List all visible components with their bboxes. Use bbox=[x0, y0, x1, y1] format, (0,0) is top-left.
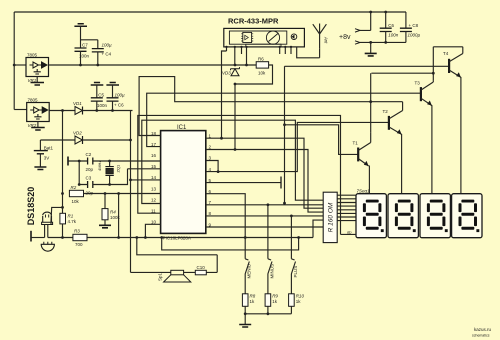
node loop tap1 bbox=[117, 236, 120, 239]
connector arrow top bbox=[355, 29, 360, 32]
switch MENIU bbox=[245, 259, 252, 294]
wire C2 C3 link bbox=[78, 161, 80, 185]
node crystal bottom junction bbox=[108, 183, 111, 186]
capacitor C6b 100n bbox=[380, 12, 399, 42]
wire battery to VD2 line bbox=[40, 139, 75, 141]
wire VD2 cathode to Vdd riser bbox=[83, 139, 131, 141]
node rail junction 1 bbox=[369, 11, 372, 14]
resistor R9 1k bbox=[265, 294, 278, 307]
node rail-B battery tap bbox=[61, 109, 64, 112]
wire T4 emitter to display4 bbox=[460, 77, 462, 194]
ground near +8v bbox=[365, 53, 377, 56]
battery Bat1 3V bbox=[34, 140, 54, 167]
svg-text:3V: 3V bbox=[44, 156, 50, 161]
wire ground drop bbox=[370, 42, 372, 53]
wire crystal top row bbox=[69, 160, 161, 162]
capacitor C10 bbox=[195, 265, 206, 275]
node pin3 pin4 junction bbox=[217, 170, 220, 173]
node crystal top junction bbox=[108, 160, 111, 163]
capacitor C6 100u bbox=[107, 85, 126, 111]
node Vdd riser junction bbox=[129, 139, 132, 142]
svg-text:10k: 10k bbox=[72, 199, 80, 204]
ground buttons bbox=[239, 325, 251, 328]
wire PLUS column bbox=[290, 216, 292, 259]
wire +5V rail A from VR1 output bbox=[49, 64, 257, 66]
node C7 junction bbox=[79, 64, 82, 67]
regulator VR1 7805 bbox=[26, 53, 49, 84]
wire pin8 to Rnet bbox=[206, 215, 323, 217]
svg-text:R4: R4 bbox=[110, 210, 116, 215]
segments digit1 bbox=[363, 200, 384, 232]
capacitor C3 20p bbox=[86, 176, 94, 196]
wire button ground bus bbox=[245, 306, 291, 324]
sensor bottom view bbox=[41, 242, 54, 251]
svg-text:12: 12 bbox=[151, 197, 157, 202]
wire loop lower branch bbox=[162, 238, 299, 250]
svg-text:Bat1: Bat1 bbox=[44, 146, 54, 151]
wire T1 emitter to display1 bbox=[368, 166, 370, 194]
wire RCR pin to IC pin1 bbox=[222, 51, 227, 138]
svg-text:MENIU: MENIU bbox=[247, 264, 252, 279]
ground below VR1 bbox=[36, 77, 38, 83]
svg-text:20p: 20p bbox=[86, 167, 94, 172]
node R4 top tap bbox=[104, 192, 107, 195]
resistor network R 160 OM bbox=[323, 192, 337, 242]
svg-text:schematics: schematics bbox=[472, 334, 490, 338]
capacitor C8 1000u bbox=[400, 12, 421, 42]
wire collector bus T3 T4 bbox=[371, 72, 433, 74]
connector arrow bottom bbox=[355, 41, 360, 44]
svg-text:ZQ1: ZQ1 bbox=[116, 164, 121, 173]
svg-text:4MHz: 4MHz bbox=[97, 161, 102, 171]
wire antenna feed bbox=[297, 47, 320, 58]
svg-text:C10: C10 bbox=[197, 265, 206, 270]
node R1 bottom junction bbox=[61, 236, 64, 239]
svg-text:C6: C6 bbox=[388, 23, 394, 28]
node MENIU bus junction bbox=[244, 236, 247, 239]
svg-text:R8: R8 bbox=[250, 294, 256, 299]
transistor T1 bbox=[353, 132, 371, 166]
svg-text:C3: C3 bbox=[86, 176, 92, 181]
wire R4 bottom bbox=[104, 220, 106, 225]
wire VR2 input bbox=[14, 109, 27, 111]
node VR1 input junction bbox=[13, 64, 16, 67]
svg-text:1k: 1k bbox=[296, 299, 302, 304]
wire R2 to pin13 bbox=[84, 193, 161, 195]
display digit2 bbox=[388, 194, 418, 238]
resistor R10 1k bbox=[289, 294, 305, 307]
wire pin17 net to T3 base bbox=[147, 93, 421, 146]
node T1 staircase tap bbox=[283, 123, 286, 126]
wire R1 bottom bbox=[62, 224, 64, 238]
wire pin18 net to collector bus bbox=[139, 77, 403, 136]
wire RCR pin stubs bbox=[227, 47, 292, 65]
svg-text:13: 13 bbox=[151, 186, 157, 191]
switch MINUS bbox=[268, 259, 275, 294]
segments digit3 bbox=[427, 200, 448, 232]
display digit1 bbox=[356, 194, 386, 238]
wire +5 rail to R1 R2 bbox=[62, 111, 64, 214]
wire sensor ground lead bbox=[31, 237, 45, 239]
svg-text:7805: 7805 bbox=[27, 53, 38, 58]
IC IC1 PIC16LF628A bbox=[151, 125, 212, 241]
svg-text:T3: T3 bbox=[415, 81, 421, 86]
svg-text:RCR-433-MPR: RCR-433-MPR bbox=[228, 17, 279, 26]
resistor R3 bbox=[73, 228, 87, 247]
svg-text:R3: R3 bbox=[74, 228, 80, 233]
ground sensor left bbox=[30, 231, 32, 242]
crystal ZQ1 bbox=[97, 161, 121, 185]
wire T3 emitter to display3 bbox=[431, 105, 433, 194]
switch PLUS bbox=[291, 259, 298, 294]
transistor T2 bbox=[383, 102, 403, 135]
node VD3 top junction bbox=[234, 64, 237, 67]
wire pin4 net to T2 base bbox=[206, 122, 389, 171]
svg-text:R10: R10 bbox=[296, 294, 305, 299]
svg-text:R 160 OM: R 160 OM bbox=[328, 202, 335, 232]
capacitor C2 20p bbox=[86, 152, 94, 172]
display digit4 bbox=[452, 194, 482, 238]
resistor R8 1k bbox=[242, 294, 255, 307]
wire under-IC loop bbox=[87, 237, 313, 239]
svg-text:7Seg1: 7Seg1 bbox=[357, 189, 371, 194]
svg-text:kazus.ru: kazus.ru bbox=[474, 327, 492, 332]
svg-text:+ C4: + C4 bbox=[102, 52, 112, 57]
sensor DS18S20 bbox=[26, 187, 53, 238]
svg-text:R9: R9 bbox=[272, 294, 278, 299]
svg-text:VD2: VD2 bbox=[73, 131, 82, 136]
wire MINUS column bbox=[267, 205, 269, 259]
segments digit2 bbox=[395, 200, 416, 232]
regulator VR2 7805 bbox=[27, 98, 50, 129]
svg-text:VD1: VD1 bbox=[73, 101, 82, 106]
svg-text:C7: C7 bbox=[82, 43, 88, 48]
node C5 junction bbox=[95, 109, 98, 112]
node bottom arrow junction bbox=[369, 41, 372, 44]
svg-text:16: 16 bbox=[151, 153, 157, 158]
node MINUS tap bbox=[267, 203, 270, 206]
diode VD3 zener bbox=[222, 67, 240, 76]
svg-text:T2: T2 bbox=[383, 109, 389, 114]
node C6b top junction bbox=[384, 11, 387, 14]
wire Rnet outputs to display bbox=[337, 195, 356, 220]
node R2 junction bbox=[61, 192, 64, 195]
svg-text:R1: R1 bbox=[68, 214, 74, 219]
node C6b bottom junction bbox=[384, 41, 387, 44]
wire VD3 column to pin2 bbox=[234, 84, 236, 150]
ground below VR2 bbox=[37, 122, 39, 128]
node VD3 bottom junction bbox=[234, 83, 237, 86]
wire pin11 to dp row bbox=[138, 115, 356, 234]
wire pin3 jog bbox=[206, 161, 218, 172]
antenna Ant bbox=[313, 24, 329, 49]
ground above C6a bbox=[106, 83, 119, 86]
svg-text:100n: 100n bbox=[97, 103, 108, 108]
node loop branch tap2 bbox=[297, 236, 300, 239]
ground below R4 bbox=[99, 225, 111, 228]
svg-text:C2: C2 bbox=[86, 152, 92, 157]
node collector link junction bbox=[369, 100, 372, 103]
node collector bus junction bbox=[432, 72, 435, 75]
wire pin10 riser bbox=[145, 224, 160, 237]
wire Vdd riser to pin14 bbox=[131, 111, 161, 273]
wire Rnet extra input b bbox=[313, 220, 323, 237]
svg-text:C5: C5 bbox=[98, 92, 104, 97]
svg-text:100µ: 100µ bbox=[102, 43, 113, 48]
svg-text:20p: 20p bbox=[86, 191, 94, 196]
node pin13 tap2 bbox=[117, 192, 120, 195]
node loop branch tap bbox=[160, 236, 163, 239]
svg-text:100µ: 100µ bbox=[115, 92, 126, 97]
svg-text:T4: T4 bbox=[443, 51, 449, 56]
svg-text:PLUS: PLUS bbox=[293, 266, 298, 278]
svg-text:1000µ: 1000µ bbox=[408, 33, 421, 38]
wire beeper branch bbox=[137, 238, 217, 273]
wire T4 base net riser bbox=[285, 66, 450, 203]
ground above C7 bbox=[74, 24, 87, 27]
wire arrow top to rail bbox=[360, 12, 371, 30]
wire +8V top rail bbox=[14, 11, 406, 13]
wire T4 collector loop bbox=[433, 47, 463, 81]
svg-text:1k: 1k bbox=[250, 299, 256, 304]
svg-text:1k: 1k bbox=[272, 299, 278, 304]
wire pin9 to Rnet bbox=[206, 226, 323, 228]
wire T1 base staircase bbox=[285, 125, 359, 155]
wire VD1 cathode to Vdd node bbox=[83, 110, 133, 112]
capacitor C7 100n bbox=[75, 26, 90, 65]
node C6a junction bbox=[111, 109, 114, 112]
wire R6 loop bbox=[235, 65, 273, 84]
wire sensor right pin to R1 bbox=[51, 207, 63, 224]
wire left supply rail bbox=[13, 12, 15, 110]
svg-text:7805: 7805 bbox=[28, 98, 39, 103]
resistor R2 10k bbox=[69, 185, 83, 204]
node T4 riser bottom bbox=[283, 202, 286, 205]
svg-text:T1: T1 bbox=[353, 141, 359, 146]
node C2 C3 link top bbox=[78, 160, 81, 163]
wire pin1 net to Rnet bbox=[206, 138, 323, 208]
node C2 C3 link bottom bbox=[78, 183, 81, 186]
wire pin12 to Rnet staircase bbox=[142, 120, 323, 203]
node R1 top junction bbox=[61, 206, 64, 209]
node loop tap2 bbox=[135, 236, 138, 239]
node bus junction2 bbox=[244, 312, 247, 315]
svg-text:VD3: VD3 bbox=[222, 71, 231, 76]
transistor T3 bbox=[415, 80, 434, 105]
wire data line bbox=[48, 237, 73, 239]
wire T2 emitter to display2 bbox=[401, 134, 403, 194]
display digit3 bbox=[420, 194, 450, 238]
svg-text:R2: R2 bbox=[71, 185, 77, 190]
svg-text:DS18S20: DS18S20 bbox=[26, 187, 36, 226]
svg-text:700: 700 bbox=[75, 242, 83, 247]
svg-text:100k: 100k bbox=[110, 215, 121, 220]
wire VR1 input bbox=[14, 64, 26, 66]
capacitor C4 100u bbox=[81, 40, 113, 65]
wire pin6 to MENIU bbox=[206, 194, 245, 259]
wire collector link riser bbox=[370, 73, 372, 132]
svg-text:10k: 10k bbox=[258, 71, 266, 76]
node loop tap3 bbox=[144, 236, 147, 239]
node C4 junction bbox=[96, 64, 99, 67]
wire R4 top bbox=[104, 194, 106, 209]
speaker Sp1 bbox=[158, 270, 191, 282]
svg-text:+8v: +8v bbox=[339, 34, 351, 41]
svg-text:Ant: Ant bbox=[324, 36, 329, 44]
ground crystal left bbox=[67, 157, 69, 166]
node pin1 junction bbox=[220, 137, 223, 140]
resistor R4 100k bbox=[102, 209, 121, 220]
wire pin2 net to Rnet bbox=[206, 150, 323, 213]
svg-text:+ C8: + C8 bbox=[409, 23, 419, 28]
resistor R1 4.7k bbox=[60, 213, 77, 224]
node bus junction bbox=[267, 312, 270, 315]
svg-text:+ C6: + C6 bbox=[114, 103, 124, 108]
svg-text:MINUS: MINUS bbox=[269, 264, 274, 279]
segments digit4 bbox=[459, 200, 480, 232]
svg-text:100n: 100n bbox=[79, 54, 90, 59]
wire crystal bottom row bbox=[79, 169, 160, 185]
svg-text:Sp1: Sp1 bbox=[158, 272, 163, 281]
ground below battery bbox=[34, 167, 46, 170]
svg-text:dp: dp bbox=[347, 230, 352, 235]
svg-text:14: 14 bbox=[151, 175, 157, 180]
wire pin7 to Rnet bbox=[206, 204, 323, 206]
svg-text:4.7k: 4.7k bbox=[68, 219, 77, 224]
capacitor C5 100n bbox=[91, 85, 108, 111]
ground above C5 bbox=[91, 83, 104, 86]
svg-text:R6: R6 bbox=[258, 57, 264, 62]
resistor R6 10k bbox=[256, 57, 268, 76]
diode VD2 bbox=[73, 131, 83, 145]
wire pin5 stub bbox=[206, 182, 281, 184]
node Vdd pin14 tap bbox=[129, 179, 132, 182]
svg-text:100n: 100n bbox=[388, 33, 399, 38]
wire bottom rail to C8 bbox=[360, 41, 406, 43]
diode VD1 bbox=[73, 101, 83, 115]
wire tap2 column bbox=[118, 194, 120, 238]
wire speaker line bbox=[131, 271, 218, 273]
transistor T4 bbox=[443, 47, 463, 78]
node PLUS tap bbox=[290, 215, 293, 218]
node pin2 junction bbox=[234, 148, 237, 151]
module RCR-433-MPR bbox=[224, 28, 305, 47]
node R6 left junction bbox=[245, 64, 248, 67]
wire +5V rail B from VR2 output bbox=[49, 110, 75, 112]
